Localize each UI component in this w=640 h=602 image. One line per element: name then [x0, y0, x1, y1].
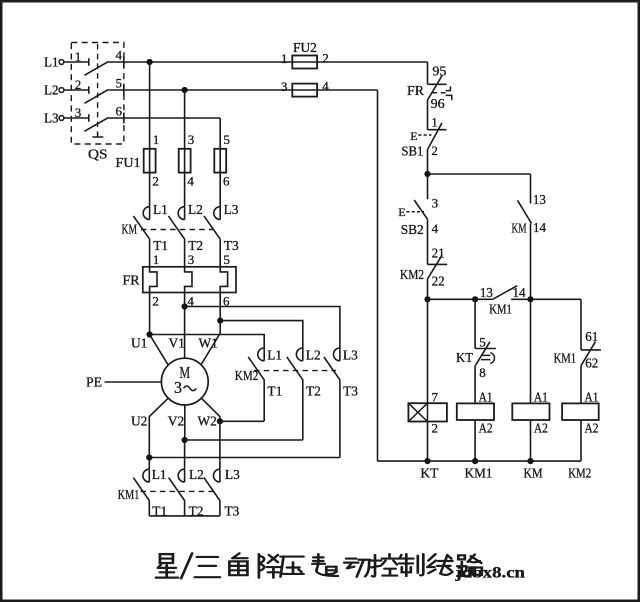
wire PE: [105, 381, 162, 383]
time relay KT coil: [408, 403, 447, 421]
svg-text:2: 2: [152, 293, 159, 308]
node U2 to KM2 pole3 bottom: [146, 454, 152, 460]
switch QS dashed enclosure: [71, 43, 124, 145]
terminal L2: [59, 88, 64, 93]
pushbutton SB2 start (NO): [414, 174, 427, 264]
node at row junction left: [424, 296, 430, 302]
svg-text:95: 95: [432, 64, 446, 79]
svg-text:W1: W1: [199, 336, 218, 351]
svg-text:E: E: [410, 129, 417, 143]
contactor KM1 star pole 2: [178, 469, 184, 482]
contactor KM main contact pole 1: [143, 207, 149, 220]
svg-text:5: 5: [116, 76, 123, 91]
svg-text:2: 2: [431, 143, 438, 158]
svg-text:T3: T3: [224, 238, 239, 253]
title char zhi: [398, 554, 423, 576]
wire V2 from motor: [184, 405, 186, 440]
svg-text:PE: PE: [86, 375, 102, 390]
svg-text:QS: QS: [88, 147, 108, 162]
svg-text:13: 13: [533, 192, 546, 207]
contactor KM1 NO contact 13-14 horizontal: [493, 286, 518, 300]
wire U2 from motor: [149, 398, 168, 457]
svg-text:1: 1: [153, 252, 160, 267]
svg-text:8: 8: [479, 365, 486, 380]
terminal L3: [59, 116, 64, 121]
svg-text:L1: L1: [44, 55, 59, 70]
svg-text:A2: A2: [585, 421, 599, 436]
thermal relay FR heater block: [143, 267, 236, 293]
contactor KM1 star pole 1: [143, 469, 149, 482]
wire V1 to motor: [184, 307, 186, 359]
svg-text:1: 1: [431, 114, 438, 129]
svg-text:KM: KM: [122, 222, 138, 237]
node KM at bus: [527, 458, 533, 464]
svg-text:L3: L3: [44, 111, 59, 126]
svg-text:1: 1: [75, 49, 82, 64]
wire KT branch down: [474, 299, 476, 348]
svg-text:KM: KM: [512, 221, 527, 236]
title char jiao: [229, 553, 247, 575]
svg-text:V2: V2: [168, 413, 184, 428]
fuse FU1 pole 3: [214, 149, 226, 173]
node at KT branch: [472, 296, 478, 302]
svg-text:5: 5: [479, 335, 486, 350]
svg-text:1: 1: [281, 51, 288, 66]
svg-text:KT: KT: [420, 465, 438, 480]
svg-text:V1: V1: [169, 336, 185, 351]
svg-text:KM2: KM2: [235, 368, 258, 383]
fuse FU2 lower (3-4): [292, 84, 317, 97]
wire L2 bus to FU2: [124, 89, 378, 91]
wire phase-1 drop: [149, 62, 151, 207]
svg-text:T3: T3: [225, 503, 240, 518]
svg-text:T1: T1: [267, 384, 282, 399]
svg-text:U1: U1: [131, 336, 147, 351]
svg-text:6: 6: [223, 174, 230, 189]
terminal L1: [59, 60, 64, 65]
wire L3 to phase-3 drop: [124, 117, 220, 119]
wire W2 down to KM1 pole 3: [219, 421, 221, 469]
svg-text:3: 3: [188, 132, 195, 147]
wire L1 bus to FU2: [124, 61, 428, 63]
node KT at bus: [424, 458, 430, 464]
title char san: [195, 557, 220, 577]
svg-text:14: 14: [513, 285, 526, 300]
svg-text:FR: FR: [123, 273, 140, 288]
svg-text:4: 4: [322, 79, 329, 94]
svg-text:2: 2: [152, 174, 159, 189]
QS pole 3 (L3): [64, 113, 124, 132]
svg-text:A2: A2: [479, 421, 493, 436]
QS pole 2 (L2): [64, 85, 124, 104]
svg-text:KM1: KM1: [489, 302, 512, 317]
svg-text:A1: A1: [585, 389, 599, 404]
svg-text:4: 4: [116, 48, 123, 63]
contactor KM holding NO contact 13-14: [518, 174, 532, 299]
wire down to KT coil: [427, 299, 429, 403]
svg-text:2: 2: [432, 421, 439, 436]
QS pole 1 (L1): [64, 57, 124, 76]
svg-text:A2: A2: [534, 421, 548, 436]
node on L1 at phase-1 drop: [147, 59, 153, 65]
wire U1 to motor: [150, 335, 169, 366]
svg-text:U2: U2: [131, 413, 147, 428]
contactor KM2 pole 1: [258, 348, 264, 361]
svg-text:E: E: [398, 205, 405, 219]
title char xian: [427, 554, 452, 575]
svg-text:KM2: KM2: [400, 267, 424, 282]
wire V1 branch to KM2 pole 3: [185, 293, 340, 349]
svg-text:13: 13: [480, 285, 493, 300]
svg-text:5: 5: [223, 252, 230, 267]
node at KM branch: [527, 296, 533, 302]
svg-text:2: 2: [75, 77, 82, 92]
fuse FU2 upper (1-2): [292, 56, 317, 69]
contactor KM2 pole 3: [334, 348, 340, 361]
svg-text:KM1: KM1: [465, 465, 493, 480]
svg-text:L3: L3: [343, 348, 358, 363]
wire U1 branch to KM2 pole 1: [150, 293, 265, 349]
svg-text:T2: T2: [188, 238, 203, 253]
wire U2 down to KM1 pole 1: [148, 458, 150, 469]
title char slash: [181, 553, 192, 578]
svg-text:W2: W2: [198, 413, 217, 428]
KM linkage: [141, 229, 214, 231]
svg-text:KM1: KM1: [554, 350, 577, 365]
title char ya: [281, 557, 304, 577]
svg-text:L1: L1: [267, 348, 282, 363]
star point bar: [149, 515, 220, 517]
svg-text:61: 61: [585, 329, 598, 344]
svg-text:2: 2: [322, 51, 329, 66]
svg-text:L1: L1: [153, 202, 168, 217]
title char jiang: [259, 554, 281, 577]
wire phase-3 drop: [219, 118, 221, 207]
node KM1 at bus: [472, 458, 478, 464]
svg-text:FU2: FU2: [293, 40, 317, 55]
svg-text:3: 3: [188, 252, 195, 267]
svg-text:KT: KT: [456, 350, 473, 365]
wire KM coil branch: [530, 299, 532, 403]
QS handle: [92, 132, 103, 138]
svg-text:FU1: FU1: [116, 155, 141, 170]
svg-text:KM1: KM1: [118, 487, 140, 502]
title char xing: [156, 554, 178, 577]
wire V2 down to KM1 pole 2: [184, 440, 186, 469]
svg-text:6: 6: [116, 104, 123, 119]
title char lu: [457, 555, 482, 576]
FR heater pole 3: [220, 267, 227, 293]
svg-text:4: 4: [187, 174, 194, 189]
motor M 3~: [161, 358, 208, 405]
svg-text:T1: T1: [153, 238, 168, 253]
QS mechanical linkage: [97, 44, 99, 131]
wire W1 branch to KM2 pole 2: [220, 293, 303, 349]
svg-text:5: 5: [223, 132, 230, 147]
node on L2 at phase-2 drop: [182, 87, 188, 93]
title char qi: [312, 554, 338, 576]
svg-text:A1: A1: [534, 389, 548, 404]
wire W1 to motor: [202, 321, 221, 364]
wire W2 from motor: [201, 398, 220, 421]
svg-text:L3: L3: [224, 202, 239, 217]
KM1 linkage: [141, 490, 216, 492]
svg-text:62: 62: [585, 356, 598, 371]
svg-text:22: 22: [432, 274, 445, 289]
fuse FU1 pole 2: [179, 149, 191, 173]
contactor KM1 star pole 3: [214, 469, 220, 482]
svg-text:T3: T3: [343, 384, 358, 399]
svg-text:FR: FR: [407, 83, 424, 98]
node W2 to KM2 pole1 bottom: [217, 418, 223, 424]
wire phase-2 drop: [184, 90, 186, 207]
contactor KM2 NC interlock 21-22: [428, 255, 448, 299]
KM2 linkage: [254, 370, 336, 372]
contactor KM2 pole 2: [296, 348, 302, 361]
wire KM2 coil branch: [580, 299, 582, 350]
svg-text:3: 3: [432, 195, 439, 210]
svg-text:L3: L3: [225, 467, 240, 482]
svg-text:L2: L2: [188, 202, 203, 217]
svg-text:L2: L2: [44, 83, 59, 98]
pushbutton SB1 stop (NC): [428, 123, 447, 174]
node after SB1: [424, 171, 430, 177]
fuse FU1 pole 1: [144, 149, 156, 173]
svg-text:KM2: KM2: [568, 465, 591, 480]
wire to KM holding branch: [428, 173, 531, 175]
svg-text:L1: L1: [152, 467, 167, 482]
contactor KM main contact pole 3: [214, 207, 220, 220]
svg-text:SB2: SB2: [401, 222, 424, 237]
svg-text:7: 7: [432, 389, 439, 404]
svg-text:1: 1: [153, 132, 160, 147]
title char dong: [344, 559, 370, 577]
svg-text:14: 14: [533, 220, 546, 235]
FR auxiliary NC contact 95-96: [428, 76, 447, 130]
title char kong: [370, 554, 397, 576]
FR heater pole 2: [185, 267, 192, 293]
svg-text:4: 4: [432, 221, 439, 236]
wire control live drop from L1: [427, 62, 429, 84]
FR heater pole 1: [150, 267, 157, 293]
contactor KM main contact pole 2: [178, 207, 184, 220]
bottom control bus: [378, 460, 582, 462]
FR trip actuator: [432, 86, 452, 100]
svg-text:L2: L2: [189, 467, 204, 482]
svg-text:jdbx8.cn: jdbx8.cn: [454, 565, 525, 582]
time relay KT delayed NC contact: [475, 342, 496, 404]
svg-text:3: 3: [281, 79, 288, 94]
svg-text:T2: T2: [306, 384, 321, 399]
svg-text:L2: L2: [306, 348, 321, 363]
svg-text:96: 96: [431, 96, 445, 111]
svg-text:3: 3: [174, 378, 182, 397]
svg-text:3: 3: [75, 105, 82, 120]
svg-text:A1: A1: [479, 389, 493, 404]
node V2 to KM2 pole2 bottom: [182, 437, 188, 443]
contactor KM1 NC interlock 61-62: [581, 342, 601, 404]
svg-text:21: 21: [432, 246, 445, 261]
svg-text:KM: KM: [524, 465, 543, 480]
wire neutral return rail from FU2 3-4: [377, 90, 379, 461]
junction row wire: [428, 298, 582, 300]
svg-text:SB1: SB1: [401, 144, 423, 159]
